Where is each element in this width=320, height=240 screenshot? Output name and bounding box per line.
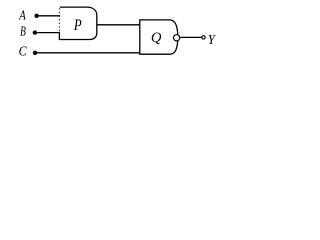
terminal dot A (34, 14, 38, 18)
wire P output to gate Q (97, 24, 141, 26)
NAND gate Q outline (140, 20, 178, 54)
wire B to gate P (35, 32, 60, 34)
svg-text:B: B (20, 24, 26, 39)
wire C to gate Q (35, 52, 140, 54)
gate P dotted left edge (58, 8, 60, 32)
svg-text:Y: Y (208, 32, 216, 47)
wire bubble to output terminal (180, 36, 201, 38)
output terminal circle (202, 36, 205, 39)
terminal dot C (33, 51, 37, 55)
inversion bubble on Q output (174, 35, 180, 41)
svg-text:P: P (73, 17, 82, 34)
svg-text:C: C (19, 44, 28, 59)
wire A to gate P (37, 15, 61, 17)
svg-text:A: A (18, 8, 26, 23)
terminal dot B (33, 30, 37, 34)
AND gate P outline (59, 7, 96, 39)
svg-text:Q: Q (151, 30, 162, 46)
